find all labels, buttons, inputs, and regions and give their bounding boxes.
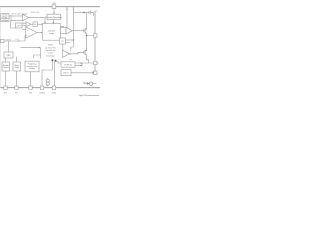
wire FB junction down to oscillator (8, 41, 10, 52)
svg-text:Comp: Comp (14, 67, 19, 69)
wire comparator output to control logic (29, 18, 45, 23)
svg-text:Controls the: Controls the (45, 49, 55, 52)
wire OCP lower sense (75, 63, 82, 66)
wire U4 output (31, 23, 33, 25)
pin COMP bottom (40, 86, 43, 89)
arrowhead into control logic pin (44, 22, 46, 24)
plus minus marks error amp (27, 30, 28, 38)
arrowhead up BOOT pin (73, 8, 74, 10)
arrowhead on FB wire (18, 40, 19, 42)
wire error amp output to control logic (37, 32, 42, 34)
block: frequency and deadtime setting (25, 61, 39, 72)
pin PGND right (94, 61, 97, 64)
block: latch (33, 22, 38, 26)
svg-text:Control: Control (3, 66, 9, 69)
wire boot block lower (66, 42, 71, 44)
svg-text:In: In (96, 10, 98, 12)
arrowhead into thermal shutdown (53, 13, 55, 15)
svg-text:Thermal Shutdown: Thermal Shutdown (45, 16, 62, 19)
wire UVLO to PGND rail (71, 72, 95, 74)
wire node A down (42, 61, 52, 86)
wire BOOT rail from top border (71, 7, 74, 52)
wire enable block to EN pin (5, 71, 7, 86)
pin VIN top (52, 3, 56, 8)
block: thermal shutdown U2 (45, 14, 62, 19)
pin SW right (94, 34, 97, 37)
meter M1 circle (89, 82, 93, 86)
op-amp U3 VCC UVLO comparator (23, 14, 29, 21)
block: UVLO low (61, 70, 71, 76)
wire low driver to LS gate (71, 52, 84, 54)
wire ramp signal across (21, 47, 41, 49)
arrowhead into OCP upper (80, 62, 82, 64)
block: internal regulator (top-left) (1, 14, 9, 22)
junction dot B (55, 60, 57, 62)
svg-text:+: + (27, 30, 28, 32)
svg-text:VIN: VIN (52, 3, 56, 5)
wire VIN sense rail (74, 12, 90, 14)
arrowhead thermal into control logic (53, 22, 55, 24)
svg-text:Setting: Setting (29, 67, 35, 70)
junction dot SW (86, 35, 88, 37)
bubble on low driver output (70, 53, 71, 54)
svg-text:Discharge: Discharge (46, 55, 55, 58)
wire frequency block to SS pin (30, 72, 32, 86)
diode D1 symbol (87, 82, 89, 84)
transistor Q1 high side NMOS (84, 28, 87, 33)
wire VIN to thermal shutdown block (53, 8, 55, 13)
op-amp low side gate driver (63, 50, 70, 57)
block: boot UVLO (60, 38, 66, 44)
wire lower input of UVLO comparator (11, 15, 23, 21)
transistor Q2 low side NMOS (84, 50, 87, 55)
wire boot block to low driver (62, 44, 64, 50)
svg-text:ocp: ocp (69, 59, 72, 61)
wire SW junction down (86, 36, 88, 51)
block: OCP logic (61, 62, 75, 67)
wire FB pin to error amp (4, 36, 27, 42)
svg-text:UVLO OK: UVLO OK (31, 12, 40, 14)
wire control logic to level shift (60, 30, 62, 32)
wire control logic to level shift top (61, 26, 64, 27)
wire stub up from PGND rail (92, 71, 94, 73)
pin EN bottom (4, 86, 7, 89)
bottom external sense network (84, 83, 97, 85)
pin SS bottom (29, 86, 32, 89)
current source I1 (46, 78, 49, 86)
wire latch to control logic (38, 23, 42, 25)
wire slope comp up stub (16, 57, 18, 63)
svg-text:BT: BT (61, 41, 63, 43)
op-amp U4 OV comparator (26, 22, 31, 27)
block: oscillator (4, 52, 13, 58)
junction dot Q2 drain (86, 50, 87, 51)
current sense element (89, 11, 94, 14)
arrowhead error amp output (41, 32, 42, 34)
wire reference rail down (11, 21, 16, 28)
wire SW node (87, 33, 96, 36)
wire thermal shutdown to control logic (53, 20, 55, 23)
junction dot on PGND rail (92, 72, 94, 74)
pin FB left (1, 39, 4, 42)
junction dot boot rail (73, 39, 74, 40)
IC boundary top border (0, 6, 100, 8)
IC boundary left border (0, 7, 1, 88)
pin RT bottom (15, 86, 18, 89)
wire source sense to right edge (95, 62, 99, 64)
block: slope compensation (13, 62, 20, 71)
pin AGND right (94, 71, 97, 74)
arrowhead latch output (41, 23, 42, 25)
wire timing L from frequency block (34, 48, 41, 59)
arrowhead ramp wire (39, 47, 40, 49)
pin GND bottom (52, 86, 55, 89)
wire LS source to PGND (87, 55, 89, 64)
svg-text:4h 4v: 4h 4v (83, 82, 87, 84)
block: reference box 1.2V (16, 23, 23, 28)
wire boot block upper (66, 39, 74, 41)
block: control logic U1 (43, 24, 61, 41)
wire HS drain up (86, 13, 88, 29)
block: enable control (2, 62, 9, 71)
wire VIN rail down right (93, 13, 95, 17)
op-amp high side gate driver (66, 27, 72, 34)
svg-text:Output: Output (48, 52, 54, 55)
junction dot VIN rail (83, 12, 85, 14)
wire regulator to comparator upper input (9, 15, 23, 17)
svg-text:Logic: Logic (49, 33, 54, 35)
wire oscillator to enable block (5, 58, 7, 62)
wire to OV comparator inputs (22, 23, 26, 25)
block: level shift (61, 28, 67, 34)
svg-text:OSC: OSC (6, 55, 11, 57)
junction dot A (52, 59, 54, 61)
IC boundary right border (94, 11, 96, 74)
svg-text:4.8 V LDO supply: 4.8 V LDO supply (12, 13, 28, 15)
svg-text:−: − (27, 36, 28, 38)
svg-text:GND: GND (52, 93, 57, 95)
wire slope comp to RT pin (16, 71, 18, 86)
wire VCC rail from top border (66, 7, 68, 28)
svg-text:NTSS: NTSS (39, 93, 45, 95)
junction dot Q1 drain (86, 28, 87, 29)
svg-text:and Bias: and Bias (2, 20, 8, 22)
wire node B to OCP block (56, 62, 62, 64)
op-amp U5 error amplifier (26, 27, 37, 38)
arrowhead into OCP lower (80, 65, 82, 67)
wire node B down to GND pin (53, 62, 55, 87)
wire high driver to HS gate (72, 30, 84, 32)
svg-text:UVLO: UVLO (63, 73, 69, 75)
wire reference to error amp input (22, 29, 27, 31)
arrowhead up VCC pin (66, 8, 67, 10)
wire OCP to right border (75, 62, 95, 64)
IC boundary bottom border (0, 87, 100, 89)
note text annotation (45, 45, 56, 58)
svg-text:OCP/Lim: OCP/Lim (64, 65, 72, 67)
